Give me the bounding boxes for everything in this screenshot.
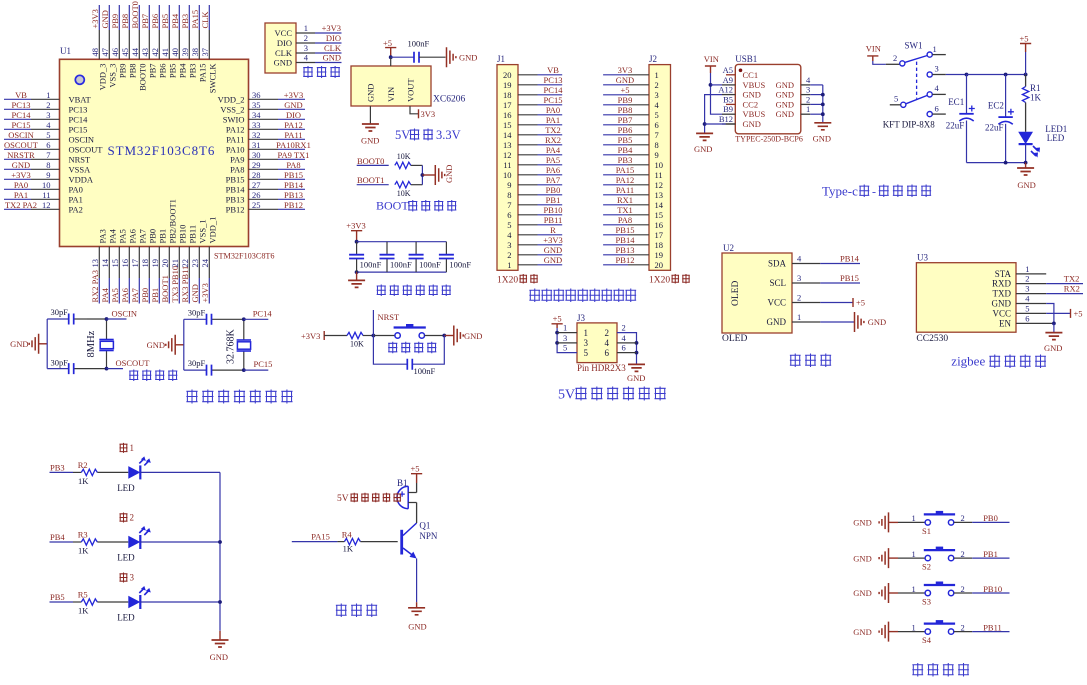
svg-text:TX1: TX1 (617, 205, 633, 215)
svg-text:47: 47 (100, 48, 110, 57)
power flag 3V3 (regulator output) (410, 106, 435, 119)
svg-text:+5: +5 (620, 85, 629, 95)
svg-text:3: 3 (1025, 284, 1029, 294)
part label STM32F103C8T6 (214, 252, 275, 261)
svg-text:19: 19 (655, 250, 664, 260)
label 下载口 (303, 66, 340, 78)
svg-text:PA9: PA9 (230, 154, 244, 164)
wire bottom rail (967, 161, 1028, 165)
J2 pin 12 / net PA12 (603, 175, 649, 185)
resistor R3 1K (73, 530, 128, 556)
svg-text:PB3: PB3 (188, 64, 198, 79)
svg-text:4: 4 (304, 53, 309, 63)
svg-text:S1: S1 (922, 526, 931, 536)
svg-text:U2: U2 (723, 243, 734, 253)
U1 pin 15 PA5 / net PA5 (110, 229, 128, 303)
svg-text:BOOT0: BOOT0 (130, 1, 140, 28)
ground GND (filter caps) (348, 272, 365, 287)
svg-text:30pF: 30pF (51, 307, 69, 317)
svg-text:PA5: PA5 (546, 155, 560, 165)
svg-text:OSCIN: OSCIN (112, 309, 138, 319)
svg-text:GND: GND (274, 58, 292, 68)
resistor R5 1K (73, 590, 128, 616)
node PB10 (972, 584, 1009, 594)
svg-text:SDA: SDA (768, 259, 787, 269)
U1 pin 24 VDD_1 / net +3V3 (200, 217, 218, 304)
wire crystal-1 frame (47, 319, 106, 369)
U1 pin 34 SWIO / net DIO (223, 110, 305, 125)
svg-text:GND: GND (813, 134, 831, 144)
svg-text:DIO: DIO (286, 110, 301, 120)
svg-text:VB: VB (15, 90, 27, 100)
label zigbee通信模块 (951, 354, 1046, 369)
svg-text:PB4: PB4 (618, 145, 633, 155)
svg-text:USB1: USB1 (735, 54, 757, 64)
label 晶振电路 (129, 370, 177, 382)
svg-text:PB5: PB5 (50, 592, 65, 602)
svg-text:1: 1 (912, 584, 916, 594)
svg-text:PA15: PA15 (616, 165, 635, 175)
svg-text:PB10: PB10 (544, 205, 563, 215)
J2 pin 1 / net 3V3 (603, 65, 649, 75)
U1 pin 26 PB13 / net PB13 (226, 190, 305, 205)
svg-text:GND: GND (853, 553, 871, 563)
svg-text:PB0: PB0 (983, 513, 998, 523)
svg-text:GND: GND (1044, 343, 1062, 353)
capacitor EC2 22uF (985, 75, 1014, 163)
svg-text:CC1: CC1 (743, 70, 759, 80)
svg-text:DIO: DIO (277, 38, 292, 48)
svg-text:16: 16 (503, 110, 512, 120)
svg-text:35: 35 (252, 100, 261, 110)
svg-text:5: 5 (507, 220, 511, 230)
svg-text:+5: +5 (383, 38, 392, 48)
svg-text:PA5: PA5 (110, 288, 120, 302)
svg-text:VOUT: VOUT (406, 78, 416, 102)
node PA15 (292, 532, 338, 542)
svg-text:NPN: NPN (419, 531, 438, 541)
svg-text:PC13: PC13 (69, 104, 88, 114)
svg-text:2: 2 (961, 622, 965, 632)
svg-text:Pin HDR2X3: Pin HDR2X3 (577, 363, 626, 373)
svg-text:14: 14 (655, 200, 664, 210)
wire VIN node (389, 55, 414, 66)
J1 pin 18 / net PC14 (518, 85, 563, 95)
svg-text:RX2 PA3: RX2 PA3 (90, 270, 100, 303)
USB1 pin B9 VBUS (722, 104, 765, 119)
svg-text:PB14: PB14 (226, 184, 246, 194)
svg-text:3: 3 (46, 110, 50, 120)
J2 pin 7 / net PB6 (603, 125, 649, 135)
capacitor C6 100nF (reset) (373, 336, 444, 377)
svg-text:GND: GND (361, 136, 379, 146)
svg-text:VIN: VIN (386, 87, 396, 102)
svg-text:GND: GND (694, 144, 712, 154)
svg-text:PB6: PB6 (618, 125, 633, 135)
J2 pin 14 / net RX1 (603, 195, 649, 205)
svg-text:LED: LED (117, 613, 135, 623)
svg-text:6: 6 (1025, 313, 1029, 323)
svg-text:GND: GND (210, 652, 228, 662)
svg-text:32.768K: 32.768K (226, 329, 237, 365)
label 芯片滤波电容 (377, 285, 451, 297)
svg-text:13: 13 (503, 140, 512, 150)
svg-text:PB6: PB6 (150, 14, 160, 29)
J1 pin 1 / net GND (518, 255, 562, 265)
U1 pin 38 PA15 / net PA15 (190, 5, 208, 82)
node PB0 (972, 513, 1009, 523)
USB1 pin 3 GND (776, 85, 823, 100)
svg-text:PB0: PB0 (546, 185, 561, 195)
svg-text:2: 2 (961, 513, 965, 523)
svg-text:PB13: PB13 (284, 190, 303, 200)
ground GND (USB left) (694, 133, 713, 154)
node BOOT1 (357, 175, 389, 185)
node PB5 (50, 592, 74, 602)
svg-text:45: 45 (120, 48, 130, 57)
svg-text:48: 48 (90, 48, 100, 57)
svg-text:+3V3: +3V3 (11, 170, 30, 180)
svg-text:OLED: OLED (722, 334, 747, 344)
svg-text:GND: GND (776, 80, 794, 90)
svg-text:PB15: PB15 (226, 174, 245, 184)
U1 pin 22 PB11 / net RX3 PB11 (180, 225, 198, 304)
push button S5 (reset) (373, 324, 444, 338)
wire LED to rail (140, 471, 220, 473)
svg-text:+5: +5 (1020, 34, 1029, 44)
svg-text:PB4: PB4 (170, 13, 180, 28)
switch SW1 KFT DIP-8X8 (890, 41, 946, 117)
svg-text:3: 3 (507, 240, 511, 250)
svg-text:1: 1 (806, 104, 810, 114)
svg-text:+3V3: +3V3 (90, 9, 100, 28)
J1 pin 3 / net +3V3 (518, 235, 563, 245)
svg-text:VDD_3: VDD_3 (98, 64, 108, 91)
svg-text:TX2 PA2: TX2 PA2 (5, 200, 37, 210)
svg-text:VCC: VCC (992, 308, 1011, 318)
LED 红3 (117, 573, 151, 623)
svg-text:EC2: EC2 (988, 101, 1004, 111)
svg-text:1: 1 (797, 312, 801, 322)
svg-text:2: 2 (1025, 274, 1029, 284)
svg-text:1: 1 (912, 549, 916, 559)
U3 pin 4 GND / ground (1016, 294, 1054, 324)
svg-text:VDD_2: VDD_2 (218, 94, 245, 104)
svg-text:GND: GND (776, 99, 794, 109)
svg-text:PA12: PA12 (284, 120, 303, 130)
svg-text:GND: GND (616, 75, 634, 85)
resistor R 10K (reset) (347, 332, 364, 348)
svg-text:VBUS: VBUS (743, 80, 766, 90)
svg-text:PA7: PA7 (546, 175, 560, 185)
svg-text:1: 1 (130, 443, 135, 453)
svg-text:OLED: OLED (731, 281, 741, 306)
svg-text:+5: +5 (553, 314, 562, 324)
J1 pin 11 / net PA5 (518, 155, 562, 165)
U1 pin 47 VSS_3 / net GND (100, 5, 118, 88)
power flag VIN (USB) (704, 54, 719, 73)
J2 pin 19 / net PB13 (603, 245, 649, 255)
svg-text:PB4: PB4 (178, 63, 188, 78)
svg-text:10K: 10K (397, 152, 411, 161)
push button S2 (898, 547, 972, 572)
ground GND (reset) (442, 326, 482, 346)
regulator U4 XC6206 (351, 66, 465, 106)
svg-text:32: 32 (252, 130, 261, 140)
svg-text:PC15: PC15 (69, 124, 88, 134)
svg-text:OSCOUT: OSCOUT (4, 140, 39, 150)
U1 pin 12 PA2 / net TX2 PA2 (4, 200, 83, 215)
node PC14 (242, 309, 272, 322)
svg-text:PB9: PB9 (118, 64, 128, 79)
svg-text:4: 4 (806, 75, 811, 85)
svg-text:3: 3 (130, 573, 135, 583)
ground GND (S4) (853, 622, 898, 642)
svg-text:PA12: PA12 (616, 175, 635, 185)
svg-text:5: 5 (894, 94, 898, 104)
J2 pin 13 / net PA11 (603, 185, 649, 195)
U2 pin 4 / net PB14 (792, 254, 860, 264)
U2 pin 1 GND / ground (792, 312, 886, 332)
svg-text:GND: GND (544, 255, 562, 265)
svg-text:PB5: PB5 (160, 14, 170, 29)
wire emitter to ground (416, 559, 418, 603)
svg-text:4: 4 (622, 333, 627, 343)
J1 pin 10 / net PA6 (518, 165, 562, 175)
svg-text:11: 11 (655, 170, 663, 180)
U1 pin 2 PC13 / net PC13 (4, 100, 87, 115)
svg-text:TXD: TXD (993, 289, 1012, 299)
svg-text:7: 7 (507, 200, 511, 210)
svg-text:S3: S3 (922, 597, 931, 607)
U1 pin 11 PA1 / net PA1 (4, 190, 83, 205)
svg-text:36: 36 (252, 90, 261, 100)
svg-text:PA6: PA6 (546, 165, 560, 175)
svg-text:STA: STA (995, 269, 1012, 279)
J1 pin 19 / net PC13 (518, 75, 562, 85)
svg-text:PB7: PB7 (148, 64, 158, 79)
svg-text:OSCOUT: OSCOUT (116, 358, 151, 368)
J2 pin 2 / net GND (603, 75, 649, 85)
P1 pin 4 / net GND (296, 53, 342, 63)
svg-text:+5: +5 (411, 464, 420, 474)
svg-text:14: 14 (503, 130, 512, 140)
U1 pin 31 PA10 / net PA10RX1 (226, 140, 311, 155)
capacitor C 100nF (filter 1) (349, 255, 382, 270)
USB1 pin 2 GND (776, 94, 823, 109)
U1 pin 45 PB8 / net PB8 (120, 5, 138, 78)
U1 pin 18 PB0 / net PB0 (140, 229, 158, 304)
J2 pin 3 / net +5 (603, 85, 649, 95)
J2 pin 8 / net PB5 (603, 135, 649, 145)
svg-text:PC14: PC14 (544, 85, 564, 95)
ground crystal-2 GND (147, 335, 184, 355)
svg-text:GND: GND (853, 518, 871, 528)
connector P1 download port (265, 23, 296, 73)
power flag VIN (SW1) (866, 44, 881, 62)
crystal Y2 32.768K (226, 319, 252, 370)
connector J2 1X20 header (649, 54, 671, 270)
svg-text:16: 16 (120, 259, 130, 268)
wire SW1 pin3 to +5 rail (932, 73, 1027, 77)
svg-text:46: 46 (110, 48, 120, 57)
svg-text:B9: B9 (723, 104, 733, 114)
svg-text:1X20: 1X20 (497, 276, 518, 286)
power flag +5 (regulator input) (383, 38, 396, 57)
power flag +5 (rail) (1020, 34, 1032, 75)
svg-text:12: 12 (42, 200, 51, 210)
svg-text:2: 2 (893, 53, 897, 63)
wire VIN to SW1 pin2 (873, 61, 900, 64)
svg-text:PA0: PA0 (69, 184, 83, 194)
U2 pin 3 / net PB15 (792, 273, 860, 283)
svg-text:EC1: EC1 (948, 97, 964, 107)
svg-text:8: 8 (655, 140, 659, 150)
svg-text:6: 6 (605, 348, 610, 358)
USB1 pin 4 GND (776, 75, 823, 90)
svg-text:RX1: RX1 (617, 195, 633, 205)
svg-text:18: 18 (503, 90, 512, 100)
svg-text:6: 6 (46, 140, 50, 150)
push button S1 (898, 511, 972, 536)
wire crystal-2 frame (184, 319, 244, 370)
svg-text:VB: VB (547, 65, 559, 75)
ground GND (LED rail) (210, 631, 229, 662)
svg-text:GND: GND (776, 109, 794, 119)
label 单片机最小系统 (186, 390, 292, 404)
power flag +3V3 (filter caps) (346, 221, 365, 242)
svg-text:6: 6 (655, 120, 659, 130)
svg-text:7: 7 (46, 150, 50, 160)
label 1X20排针 (J2) (649, 274, 690, 286)
svg-text:39: 39 (180, 48, 190, 57)
U1 pin 41 PB5 / net PB5 (160, 5, 178, 78)
svg-text:TYPEC-250D-BCP6: TYPEC-250D-BCP6 (735, 135, 803, 144)
U1 pin 40 PB4 / net PB4 (170, 5, 188, 78)
svg-text:PB5: PB5 (618, 135, 633, 145)
J1 pin 9 / net PA7 (518, 175, 562, 185)
svg-text:PB0: PB0 (148, 229, 158, 244)
svg-text:TX3 PB10: TX3 PB10 (170, 266, 180, 303)
svg-text:J1: J1 (497, 54, 505, 64)
U1 pin 1 VBAT / net VB (4, 90, 92, 105)
svg-text:A5: A5 (723, 65, 733, 75)
svg-text:PB15: PB15 (284, 170, 303, 180)
svg-text:+5: +5 (1074, 308, 1083, 318)
svg-text:PB3: PB3 (50, 463, 65, 473)
node PB4 (50, 532, 74, 542)
svg-text:GND: GND (366, 84, 376, 102)
svg-text:4: 4 (605, 338, 610, 348)
svg-text:40: 40 (170, 48, 180, 57)
svg-text:STM32F103C8T6: STM32F103C8T6 (214, 252, 275, 261)
node BOOT0 (357, 156, 389, 166)
U1 pin 21 PB10 / net TX3 PB10 (170, 225, 188, 304)
svg-text:1: 1 (912, 622, 916, 632)
U1 pin 44 BOOT0 / net BOOT0 (130, 1, 148, 91)
svg-text:100nF: 100nF (419, 260, 441, 270)
svg-text:PA2: PA2 (69, 204, 83, 214)
label BOOT设置电路 (376, 199, 456, 213)
svg-text:SW1: SW1 (905, 41, 923, 51)
svg-text:R1: R1 (1030, 83, 1041, 93)
svg-text:PA11: PA11 (616, 185, 634, 195)
svg-text:30pF: 30pF (188, 307, 206, 317)
svg-text:PA7: PA7 (130, 288, 140, 302)
svg-text:PB0: PB0 (140, 288, 150, 303)
capacitor C 100nF (filter 4) (439, 255, 472, 270)
U1 pin 33 PA12 / net PA12 (226, 120, 305, 135)
svg-text:19: 19 (503, 80, 512, 90)
svg-text:PA0: PA0 (546, 105, 560, 115)
designator U1 (60, 46, 71, 56)
svg-text:PB7: PB7 (140, 14, 150, 29)
svg-text:PB7: PB7 (618, 115, 633, 125)
U1 pin 17 PA7 / net PA7 (130, 229, 148, 303)
U1 pin 28 PB15 / net PB15 (226, 170, 305, 185)
svg-text:PB12: PB12 (284, 200, 303, 210)
svg-text:-: - (872, 185, 876, 199)
svg-text:OSCIN: OSCIN (8, 130, 34, 140)
svg-text:19: 19 (150, 259, 160, 268)
U3 pin 6 EN / ground (1016, 313, 1056, 332)
svg-text:PA8: PA8 (618, 215, 632, 225)
capacitor C 30pF (top, 8MHz) (51, 307, 74, 325)
node PB1 (972, 549, 1009, 559)
svg-text:R5: R5 (78, 590, 88, 600)
wire LED to rail (140, 601, 220, 603)
svg-text:10: 10 (42, 180, 51, 190)
U1 pin 29 PA8 / net PA8 (230, 160, 305, 175)
svg-text:17: 17 (503, 100, 512, 110)
U2 pin 2 VCC / net +5 (792, 293, 865, 308)
push button S4 (898, 620, 972, 645)
svg-text:PA4: PA4 (100, 287, 110, 302)
J1 pin 15 / net PA1 (518, 115, 562, 125)
svg-text:CLK: CLK (200, 11, 210, 29)
svg-text:PB14: PB14 (284, 180, 304, 190)
svg-text:1K: 1K (78, 546, 89, 556)
svg-text:2: 2 (806, 94, 810, 104)
svg-text:PB15: PB15 (616, 225, 635, 235)
svg-text:22uF: 22uF (985, 123, 1004, 133)
J1 pin 8 / net PB0 (518, 185, 562, 195)
U1 pin 7 NRST / net NRSTR (4, 150, 91, 165)
svg-text:26: 26 (252, 190, 261, 200)
ground GND (U3) (1044, 333, 1062, 353)
label 1X20排针 (J1) (497, 274, 538, 286)
svg-text:1K: 1K (78, 476, 89, 486)
svg-text:1: 1 (584, 328, 589, 338)
svg-text:PA0: PA0 (14, 180, 28, 190)
svg-text:PB10: PB10 (178, 225, 188, 244)
U1 pin 30 PA9 / net PA9 TX1 (230, 150, 309, 165)
svg-text:PB3: PB3 (180, 14, 190, 29)
svg-text:44: 44 (130, 47, 140, 56)
svg-text:Type-c: Type-c (822, 184, 858, 199)
svg-text:J3: J3 (577, 313, 586, 323)
svg-text:5V: 5V (558, 388, 575, 403)
svg-text:LED: LED (1047, 133, 1065, 143)
J1 pin 5 / net PB11 (518, 215, 562, 225)
U1 pin 27 PB14 / net PB14 (226, 180, 305, 195)
U1 pin 6 OSCOUT / net OSCOUT (4, 140, 103, 155)
svg-text:4: 4 (46, 120, 51, 130)
svg-text:20: 20 (503, 70, 512, 80)
U1 pin 37 SWCLK / net CLK (200, 5, 218, 93)
svg-text:2: 2 (605, 328, 610, 338)
svg-text:1K: 1K (1030, 93, 1042, 103)
